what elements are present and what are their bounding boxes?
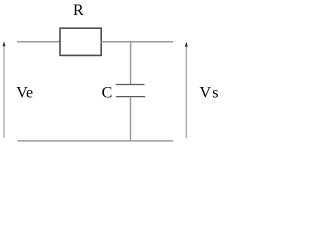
voltage arrow Vs (head): [185, 42, 188, 47]
wire: top-left segment from input node to resistor: [17, 41, 60, 43]
svg-text:C: C: [102, 85, 113, 102]
label C: [102, 85, 113, 102]
capacitor C top plate: [116, 84, 145, 86]
wire: top-right segment from resistor to output: [101, 41, 173, 43]
capacitor C bottom plate: [116, 96, 145, 98]
wire: vertical from top wire down to capacitor: [130, 42, 132, 84]
resistor R (box symbol): [60, 28, 101, 55]
wire: vertical from capacitor down to bottom wire: [130, 97, 132, 141]
voltage arrow Ve (head): [3, 41, 6, 46]
svg-text:Vs: Vs: [200, 85, 220, 102]
label Vs: [200, 85, 220, 102]
label R: [73, 2, 84, 19]
svg-text:Ve: Ve: [16, 85, 33, 102]
voltage arrow Ve (shaft): [3, 44, 5, 137]
label Ve: [16, 85, 33, 102]
wire: bottom return wire: [18, 140, 174, 142]
voltage arrow Vs (shaft): [185, 45, 187, 138]
svg-text:R: R: [73, 2, 84, 19]
